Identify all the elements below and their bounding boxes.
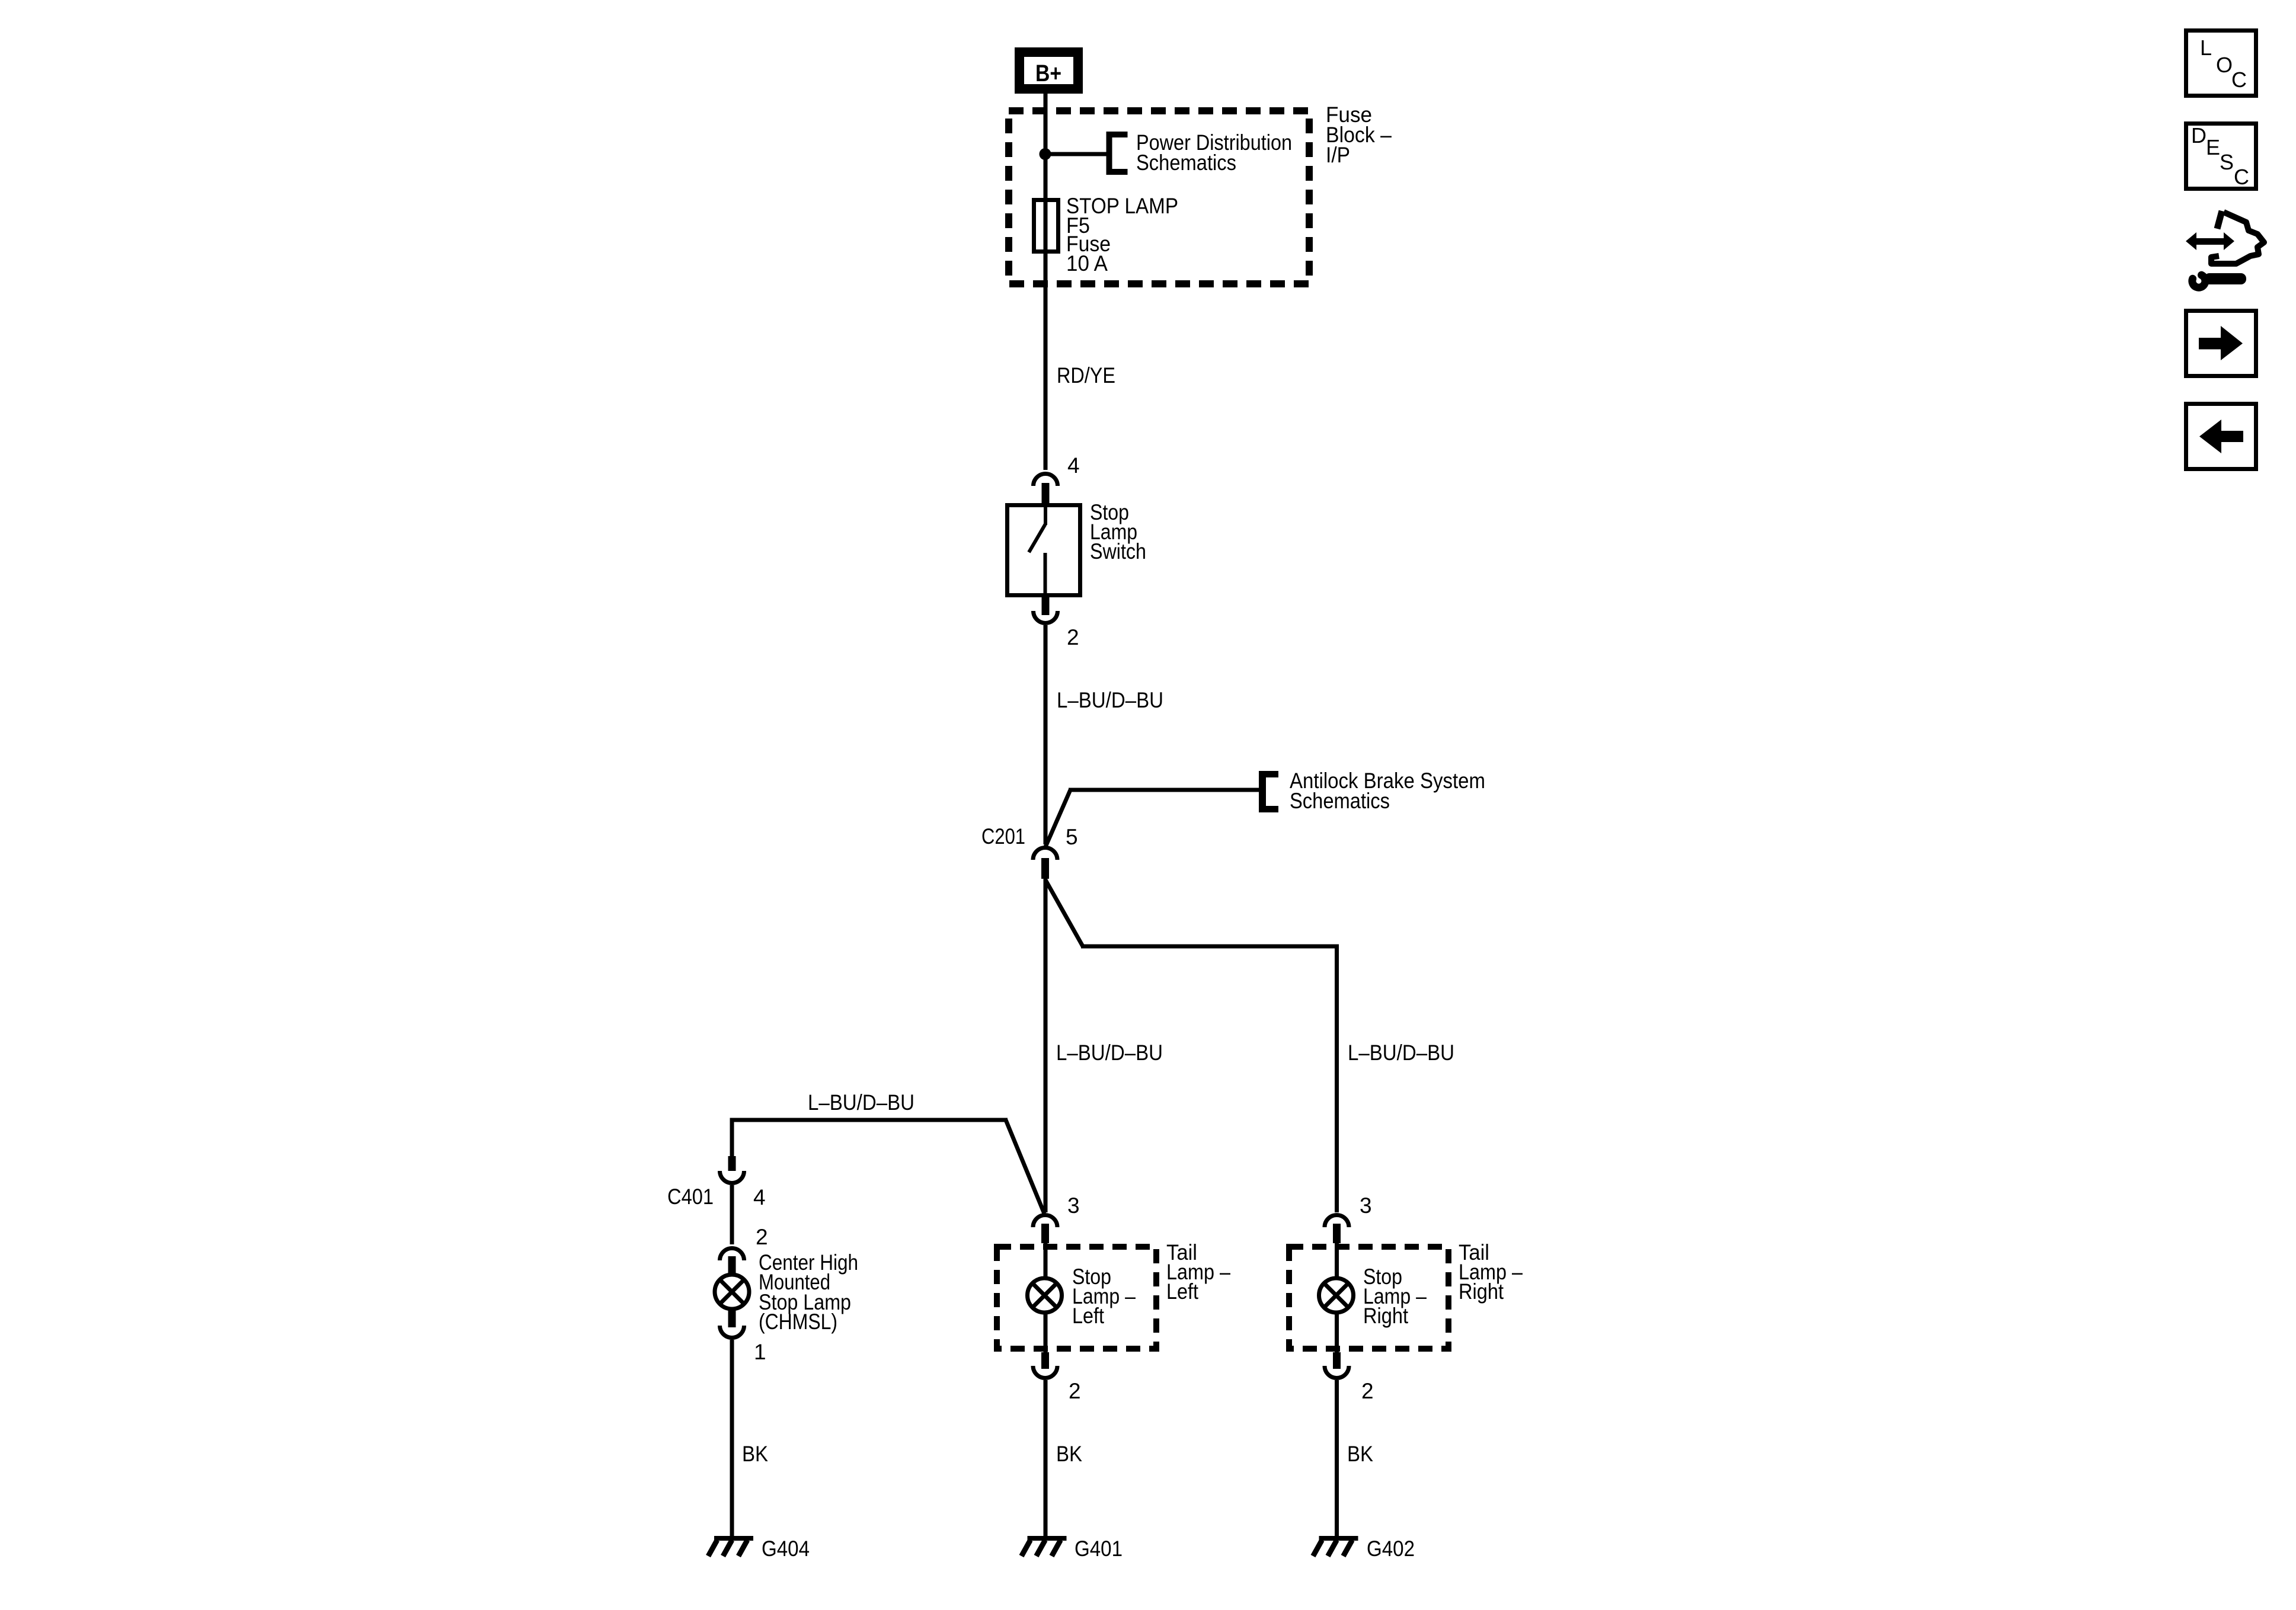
C401 connector pin	[728, 1156, 736, 1171]
svg-text:RD/YE: RD/YE	[1057, 363, 1115, 388]
lamp stop lamp right	[1319, 1278, 1354, 1313]
svg-text:(CHMSL): (CHMSL)	[759, 1310, 837, 1334]
CHMSL top connector arc	[720, 1249, 744, 1261]
svg-text:C: C	[2231, 68, 2247, 92]
right lamp bottom connector arc	[1325, 1366, 1349, 1378]
wire below lamp right	[1335, 1314, 1339, 1352]
C401 connector arc	[720, 1171, 744, 1183]
wire below lamp left	[1044, 1314, 1048, 1352]
switch connector top pin	[1042, 483, 1050, 503]
svg-text:L–BU/D–BU: L–BU/D–BU	[1348, 1041, 1454, 1065]
svg-text:5: 5	[1066, 825, 1078, 849]
wire switch to C201	[1044, 625, 1048, 844]
lamp CHMSL	[715, 1275, 749, 1309]
branch wire horizontal to right lamp	[1081, 945, 1339, 949]
label Stop Lamp - Left	[1072, 1265, 1136, 1328]
wire CHMSL to ground	[730, 1340, 734, 1536]
svg-text:BK: BK	[1056, 1442, 1082, 1466]
branch diagonal to right lamp	[1045, 880, 1083, 946]
label Antilock Brake System Schematics	[1290, 769, 1485, 813]
svg-text:2: 2	[1361, 1379, 1374, 1403]
bracket to power distribution schematics	[1107, 132, 1128, 175]
wire junction to power distribution bracket	[1045, 152, 1108, 156]
wire left lamp to ground	[1044, 1380, 1048, 1536]
label Fuse Block - I/P	[1326, 103, 1392, 167]
svg-text:2: 2	[1067, 625, 1079, 649]
tail lamp right dashed box	[1289, 1247, 1448, 1349]
left lamp bottom connector arc	[1033, 1366, 1057, 1378]
svg-text:E: E	[2206, 135, 2220, 159]
lamp stop lamp left	[1028, 1278, 1062, 1313]
wire into lamp right	[1335, 1243, 1339, 1277]
ground G401	[1022, 1536, 1067, 1556]
wire B+ to fuse to switch connector	[1044, 94, 1048, 470]
CHMSL branch wire	[730, 1118, 1045, 1214]
DESC icon box	[2186, 123, 2256, 189]
left lamp bottom connector pin	[1041, 1352, 1049, 1369]
right branch vertical wire	[1335, 945, 1339, 1212]
svg-text:L: L	[2200, 36, 2212, 60]
label Tail Lamp - Right	[1459, 1240, 1523, 1304]
right stop lamp connector pin	[1333, 1224, 1341, 1243]
svg-text:O: O	[2216, 53, 2233, 77]
svg-text:G402: G402	[1367, 1537, 1415, 1561]
jump with wrench icon	[2186, 211, 2264, 287]
svg-text:4: 4	[1067, 453, 1080, 478]
C201 connector pin	[1041, 858, 1049, 879]
power symbol B+	[1019, 52, 1078, 89]
wire right lamp to ground	[1335, 1380, 1339, 1536]
svg-text:G404: G404	[762, 1537, 810, 1561]
svg-text:B+: B+	[1035, 60, 1061, 87]
left stop lamp connector arc	[1033, 1215, 1057, 1227]
CHMSL top connector pin	[728, 1256, 736, 1275]
svg-text:Left: Left	[1072, 1304, 1105, 1328]
svg-text:L–BU/D–BU: L–BU/D–BU	[1057, 688, 1163, 712]
right stop lamp connector arc	[1325, 1215, 1349, 1227]
svg-text:Right: Right	[1363, 1304, 1409, 1328]
svg-text:C401: C401	[667, 1185, 714, 1209]
LOC icon box	[2186, 31, 2256, 96]
back arrow icon box	[2186, 404, 2256, 469]
svg-text:D: D	[2191, 123, 2207, 148]
svg-text:1: 1	[754, 1340, 766, 1364]
svg-text:4: 4	[753, 1185, 766, 1209]
svg-text:Switch: Switch	[1090, 539, 1146, 564]
wire C401 to CHMSL	[730, 1185, 734, 1244]
right lamp bottom connector pin	[1333, 1352, 1341, 1369]
label Center High Mounted Stop Lamp (CHMSL)	[759, 1250, 858, 1334]
stop lamp switch box	[1008, 505, 1080, 596]
switch connector top arc	[1034, 474, 1058, 486]
label STOP LAMP F5 Fuse 10 A	[1066, 194, 1178, 276]
label Power Distribution Schematics	[1136, 130, 1292, 175]
svg-text:Schematics: Schematics	[1136, 151, 1236, 175]
switch connector bottom arc	[1034, 611, 1058, 623]
svg-text:2: 2	[756, 1225, 768, 1249]
wire C201 to left stop lamp	[1044, 879, 1048, 1212]
next arrow icon box	[2186, 311, 2256, 376]
svg-text:BK: BK	[742, 1442, 768, 1466]
svg-text:S: S	[2220, 150, 2234, 174]
svg-text:L–BU/D–BU: L–BU/D–BU	[808, 1090, 914, 1115]
svg-text:10 A: 10 A	[1066, 251, 1108, 276]
CHMSL bottom connector pin	[728, 1309, 736, 1327]
branch diagonal to ABS	[1045, 790, 1070, 847]
tail lamp left dashed box	[997, 1247, 1156, 1349]
svg-text:Left: Left	[1166, 1279, 1199, 1304]
svg-text:Right: Right	[1459, 1279, 1504, 1304]
svg-text:G401: G401	[1075, 1537, 1123, 1561]
branch wire to ABS bracket	[1069, 788, 1260, 792]
C201 connector arc	[1033, 848, 1057, 860]
label Stop Lamp Switch	[1090, 500, 1146, 564]
svg-text:C201: C201	[981, 824, 1025, 849]
svg-text:3: 3	[1067, 1193, 1080, 1218]
switch connector bottom pin	[1042, 597, 1050, 615]
svg-text:Schematics: Schematics	[1290, 789, 1390, 813]
label Tail Lamp - Left	[1166, 1240, 1230, 1304]
svg-text:3: 3	[1360, 1193, 1372, 1218]
label Stop Lamp - Right	[1363, 1265, 1427, 1328]
left stop lamp connector pin	[1041, 1224, 1049, 1243]
CHMSL bottom connector arc	[720, 1326, 744, 1338]
svg-text:L–BU/D–BU: L–BU/D–BU	[1056, 1041, 1163, 1065]
switch blade	[1029, 503, 1047, 597]
junction node	[1040, 148, 1051, 160]
wire into lamp left	[1044, 1243, 1048, 1277]
fuse block dashed box	[1009, 111, 1309, 284]
ground G404	[708, 1536, 753, 1556]
ground G402	[1313, 1536, 1358, 1556]
svg-text:2: 2	[1069, 1379, 1081, 1403]
svg-text:I/P: I/P	[1326, 143, 1350, 167]
bracket to ABS schematics	[1259, 771, 1278, 812]
svg-text:C: C	[2234, 165, 2249, 189]
fuse F5	[1034, 200, 1059, 252]
svg-text:BK: BK	[1347, 1442, 1373, 1466]
